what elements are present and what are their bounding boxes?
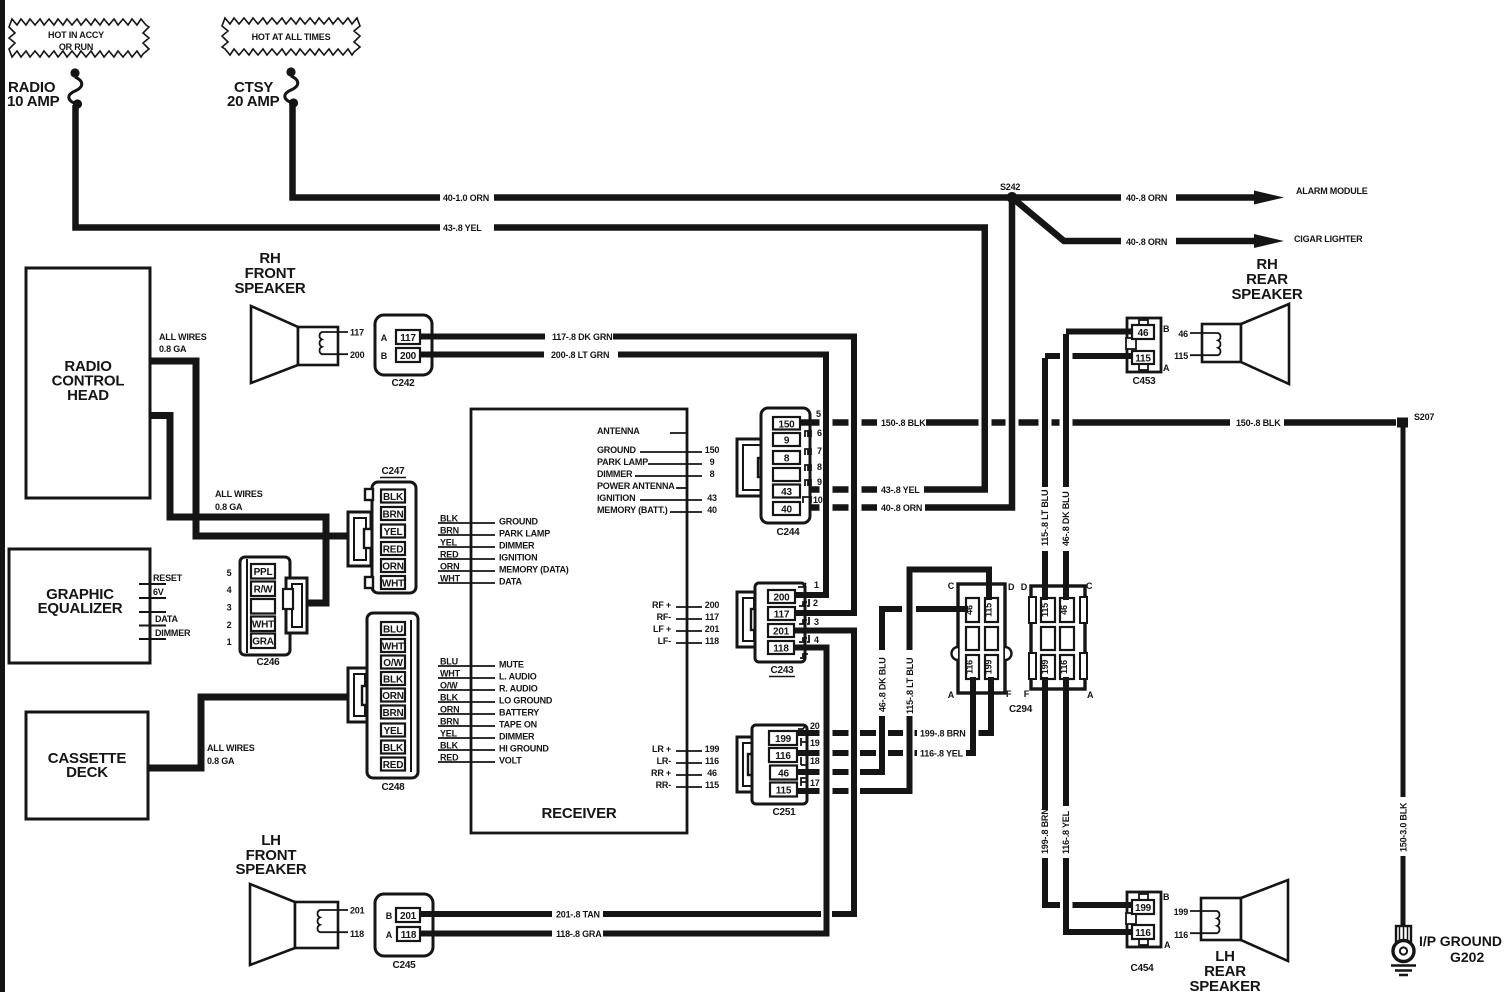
svg-text:10 AMP: 10 AMP [7,93,60,110]
svg-text:HOT AT ALL TIMES: HOT AT ALL TIMES [252,32,331,42]
svg-text:118: 118 [401,930,417,941]
wire stub into C454 pin A [1124,929,1133,935]
svg-text:O/W: O/W [440,681,458,691]
svg-text:199-.8 BRN: 199-.8 BRN [1040,808,1050,854]
svg-text:B: B [381,351,388,361]
svg-text:200: 200 [705,600,720,610]
svg-text:WHT: WHT [382,579,404,590]
wire radio control head to C246 [150,416,326,604]
svg-text:201: 201 [400,911,417,922]
svg-text:S242: S242 [1000,182,1020,192]
hot-in-accy callout box [9,19,149,57]
svg-text:115: 115 [776,786,792,797]
wire 43-.8 YEL from RADIO fuse [76,105,985,490]
svg-text:EQUALIZER: EQUALIZER [38,600,123,617]
svg-text:LF-: LF- [658,636,672,646]
C251 pin cavities and numbers [798,725,806,729]
connector C294 left half [958,584,1005,693]
svg-text:RR-: RR- [656,780,672,790]
svg-text:201: 201 [773,627,790,638]
svg-text:A: A [381,333,388,343]
svg-text:A: A [1164,940,1171,950]
svg-text:LR-: LR- [657,756,672,766]
connector C453 [1127,318,1161,372]
svg-text:OR RUN: OR RUN [59,42,93,52]
svg-text:I/P GROUND: I/P GROUND [1419,933,1502,949]
svg-text:LR +: LR + [652,744,671,754]
svg-text:B: B [1163,324,1170,334]
ring terminal I/P ground G202 [1396,926,1411,942]
svg-text:YEL: YEL [384,527,403,538]
svg-text:ANTENNA: ANTENNA [597,426,640,436]
svg-text:R. AUDIO: R. AUDIO [499,684,538,694]
svg-text:4: 4 [227,585,232,595]
svg-text:0.8 GA: 0.8 GA [159,344,187,354]
svg-text:46: 46 [1138,328,1149,339]
svg-text:RF-: RF- [657,612,672,622]
svg-text:115: 115 [984,603,994,617]
connector C251 left plug [737,737,755,792]
svg-text:115: 115 [705,780,719,790]
LH front speaker [250,884,295,965]
connector C247 [372,482,416,593]
svg-text:BRN: BRN [440,717,459,727]
wire 201-.8 TAN C243-3 to C245-B [421,631,854,915]
wire 117-.8 DK GRN C243-2 to C242-A [421,337,854,614]
receiver pin rows left group 1 (C247) [438,523,495,583]
svg-text:POWER ANTENNA: POWER ANTENNA [597,481,675,491]
svg-text:C247: C247 [381,466,405,477]
svg-text:9: 9 [710,457,715,467]
svg-text:115: 115 [1174,351,1188,361]
svg-text:201: 201 [705,624,720,634]
svg-text:150: 150 [778,420,795,431]
svg-text:D: D [1021,582,1028,592]
svg-text:20: 20 [810,721,820,731]
svg-text:DECK: DECK [66,764,108,781]
svg-text:199: 199 [775,734,792,745]
svg-text:40-1.0 ORN: 40-1.0 ORN [443,193,489,203]
svg-text:8: 8 [817,462,822,472]
svg-text:43-.8 YEL: 43-.8 YEL [443,223,482,233]
svg-text:D: D [1008,582,1015,592]
svg-text:199: 199 [1040,660,1050,675]
svg-text:LF +: LF + [653,624,671,634]
wire 115-.8 LT BLU C251-17 to C294 [796,570,989,792]
svg-text:C251: C251 [772,807,796,818]
svg-text:40-.8 ORN: 40-.8 ORN [881,503,922,513]
wire 118-.8 GRA C243-4 to C245-A [421,648,827,934]
svg-text:43: 43 [781,487,792,498]
C243 pin cavities and numbers [798,583,806,587]
svg-text:4: 4 [814,635,819,645]
svg-text:SPEAKER: SPEAKER [235,861,306,878]
svg-text:S207: S207 [1414,412,1434,422]
svg-text:O/W: O/W [383,658,403,669]
svg-text:200: 200 [773,593,790,604]
svg-text:3: 3 [814,617,819,627]
svg-text:G202: G202 [1450,949,1484,965]
svg-text:C454: C454 [1130,963,1154,974]
svg-text:RED: RED [383,545,404,556]
svg-text:PARK LAMP: PARK LAMP [499,529,550,539]
svg-text:2: 2 [227,620,232,630]
wire 40 ORN from CTSY fuse to S242 [293,104,1257,198]
svg-text:116: 116 [705,756,719,766]
svg-text:IGNITION: IGNITION [499,553,537,563]
svg-text:SPEAKER: SPEAKER [234,280,305,297]
svg-text:46-.8 DK BLU: 46-.8 DK BLU [1061,491,1071,546]
svg-text:CIGAR LIGHTER: CIGAR LIGHTER [1294,234,1363,244]
svg-text:2: 2 [813,598,818,608]
svg-text:R/W: R/W [254,585,274,596]
arrow to cigar lighter [1254,234,1284,248]
svg-text:19: 19 [810,738,820,748]
svg-text:BLK: BLK [440,693,459,703]
RH front speaker [251,306,298,383]
wire 40 ORN down from S242 to C244 pin 40 [800,200,1012,508]
svg-text:40-.8 ORN: 40-.8 ORN [1126,237,1167,247]
connector C248 [367,613,418,778]
svg-text:46-.8 DK BLU: 46-.8 DK BLU [878,657,888,712]
svg-text:43: 43 [707,493,717,503]
svg-text:DIMMER: DIMMER [499,541,535,551]
splice S207 [1397,418,1408,428]
svg-text:0.8 GA: 0.8 GA [215,502,243,512]
svg-text:200-.8 LT GRN: 200-.8 LT GRN [551,350,609,360]
wire radio control head to C247 [150,361,352,536]
svg-text:BLU: BLU [440,657,458,667]
svg-text:C242: C242 [391,378,415,389]
svg-text:C294: C294 [1009,704,1033,715]
svg-text:C: C [1086,581,1093,591]
wire stub out of C245 pin B [420,911,438,917]
svg-text:116: 116 [775,751,791,762]
svg-text:C244: C244 [776,527,800,538]
svg-text:116: 116 [1059,660,1069,674]
wire stub out of C245 pin A [419,931,438,937]
connector C247 left plug [348,512,371,566]
svg-text:B: B [1163,892,1170,902]
svg-text:WHT: WHT [440,574,461,584]
svg-text:6: 6 [817,428,822,438]
svg-text:20 AMP: 20 AMP [227,93,280,110]
svg-text:YEL: YEL [440,729,458,739]
svg-text:DIMMER: DIMMER [597,469,633,479]
svg-text:117: 117 [350,328,364,338]
svg-text:ALL WIRES: ALL WIRES [207,743,255,753]
RH rear speaker [1202,324,1241,362]
svg-text:YEL: YEL [440,538,458,548]
svg-text:40: 40 [781,505,792,516]
svg-text:199: 199 [984,660,994,675]
svg-text:9: 9 [817,477,822,487]
svg-text:150-.8 BLK: 150-.8 BLK [881,418,926,428]
svg-text:ORN: ORN [382,691,404,702]
connector C454 [1127,892,1161,947]
wire 116-.8 YEL C251-19 to C294 [796,681,973,753]
fuse CTSY 20 AMP [286,67,295,76]
svg-text:WHT: WHT [382,642,404,653]
svg-text:8: 8 [710,469,715,479]
wire 115-.8 LT BLU C453-A to C294 [1045,356,1133,600]
svg-text:RED: RED [383,760,404,771]
wire 46-.8 DK BLU C251-18 to C294 [796,609,964,772]
svg-text:200: 200 [350,350,365,360]
svg-text:RR +: RR + [651,768,671,778]
receiver pin rows left group 2 (C248) [438,666,495,762]
svg-text:TAPE ON: TAPE ON [499,720,537,730]
svg-text:BLK: BLK [383,743,404,754]
svg-text:43-.8 YEL: 43-.8 YEL [881,485,920,495]
connector C243 [755,583,805,662]
wire stubs into C294 cells [956,581,1066,694]
svg-text:VOLT: VOLT [499,756,522,766]
wire stub into C454 pin B [1124,902,1133,908]
svg-text:RECEIVER: RECEIVER [541,805,616,822]
svg-text:116: 116 [1135,928,1151,939]
svg-text:116-.8 YEL: 116-.8 YEL [1061,810,1071,854]
svg-text:46: 46 [707,768,717,778]
svg-text:F: F [1006,689,1012,699]
svg-text:LO GROUND: LO GROUND [499,696,553,706]
svg-text:17: 17 [810,778,820,788]
splice S242 [1007,192,1018,203]
svg-text:ORN: ORN [382,562,404,573]
C244 pin cavities and numbers [805,431,811,437]
svg-text:10: 10 [813,495,823,505]
svg-text:200: 200 [400,351,417,362]
svg-text:46: 46 [778,769,789,780]
svg-text:46: 46 [1059,605,1069,615]
svg-text:115: 115 [1135,354,1151,365]
svg-text:RF +: RF + [652,600,671,610]
svg-text:117-.8 DK GRN: 117-.8 DK GRN [552,332,612,342]
svg-text:118: 118 [773,644,789,655]
svg-text:C: C [948,581,955,591]
svg-text:118: 118 [705,636,719,646]
svg-text:B: B [386,911,393,921]
svg-text:WHT: WHT [440,669,461,679]
RECEIVER box [471,409,687,833]
svg-text:199: 199 [1174,907,1189,917]
svg-text:BRN: BRN [382,708,403,719]
svg-text:46: 46 [1178,329,1188,339]
CASSETTE DECK box [26,712,148,819]
connector C245 [375,894,433,956]
svg-text:6V: 6V [153,587,164,597]
wire 40-.8 ORN to cigar lighter [1012,198,1256,242]
LH rear speaker [1201,898,1241,940]
svg-text:A: A [386,930,393,940]
svg-text:C248: C248 [381,782,405,793]
svg-text:5: 5 [227,568,232,578]
svg-text:BATTERY: BATTERY [499,708,539,718]
hot-at-all-times callout box [222,18,360,55]
svg-text:BLK: BLK [440,741,459,751]
svg-text:115-.8 LT BLU: 115-.8 LT BLU [1040,490,1050,546]
svg-text:C453: C453 [1132,376,1156,387]
wire 200-.8 LT GRN C243-1 to C242-B [421,355,826,596]
svg-text:HEAD: HEAD [67,387,109,404]
svg-text:YEL: YEL [384,726,403,737]
svg-text:0.8 GA: 0.8 GA [207,756,235,766]
svg-text:C245: C245 [392,960,416,971]
svg-text:MUTE: MUTE [499,660,524,670]
connector C244 [761,408,810,523]
svg-text:ALARM MODULE: ALARM MODULE [1296,186,1368,196]
svg-text:150-.8 BLK: 150-.8 BLK [1236,418,1281,428]
svg-text:IGNITION: IGNITION [597,493,635,503]
svg-text:201-.8 TAN: 201-.8 TAN [556,910,600,920]
svg-text:8: 8 [784,454,790,465]
svg-text:GROUND: GROUND [499,517,538,527]
svg-text:150: 150 [705,445,720,455]
svg-text:116-.8 YEL: 116-.8 YEL [920,749,964,759]
svg-text:7: 7 [817,446,822,456]
svg-text:117: 117 [774,610,790,621]
svg-text:117: 117 [705,612,719,622]
RADIO CONTROL HEAD box [26,268,150,498]
svg-text:DATA: DATA [499,577,523,587]
svg-text:199-.8 BRN: 199-.8 BRN [920,729,966,739]
svg-text:116: 116 [1174,930,1188,940]
wire 116-.8 YEL C294 to C454-A [1066,678,1133,932]
equalizer pin stubs [139,584,166,639]
svg-text:199: 199 [1135,903,1152,914]
connector C294 right half [1031,586,1085,689]
svg-text:BLU: BLU [383,625,403,636]
svg-text:SPEAKER: SPEAKER [1189,978,1260,992]
ground symbol G202 [1391,966,1416,976]
wire stub out of C242 pin B [420,352,438,358]
svg-text:18: 18 [810,756,820,766]
svg-text:115-.8 LT BLU: 115-.8 LT BLU [905,658,915,714]
svg-text:HI GROUND: HI GROUND [499,744,549,754]
connector C243 left plug [737,592,757,647]
svg-text:3: 3 [227,603,232,613]
wire cassette deck to C248 [148,697,352,768]
svg-text:117: 117 [400,333,416,344]
svg-text:MEMORY (BATT.): MEMORY (BATT.) [597,505,668,515]
svg-text:40-.8 ORN: 40-.8 ORN [1126,193,1167,203]
svg-text:118-.8 GRA: 118-.8 GRA [556,929,602,939]
svg-text:L. AUDIO: L. AUDIO [499,672,537,682]
svg-text:199: 199 [705,744,720,754]
connector C248 left plug [348,668,370,722]
svg-text:A: A [1163,363,1170,373]
svg-text:SPEAKER: SPEAKER [1231,286,1302,303]
svg-text:RED: RED [440,753,459,763]
page left border bar [0,0,5,992]
svg-text:BRN: BRN [382,510,403,521]
svg-text:BLK: BLK [440,514,459,524]
svg-text:DATA: DATA [155,614,179,624]
svg-text:A: A [1087,690,1094,700]
svg-text:DIMMER: DIMMER [155,628,191,638]
svg-text:BLK: BLK [383,675,404,686]
wire 199-.8 BRN C251-20 to C294 [796,681,991,733]
svg-text:PARK LAMP: PARK LAMP [597,457,648,467]
svg-text:C243: C243 [770,665,794,676]
wire stub out of C242 pin A [420,334,438,340]
svg-text:9: 9 [784,436,790,447]
svg-text:PPL: PPL [254,567,273,578]
svg-text:150-3.0 BLK: 150-3.0 BLK [1399,802,1409,852]
svg-text:ALL WIRES: ALL WIRES [215,489,263,499]
svg-text:115: 115 [1040,603,1050,617]
arrow to alarm module [1254,191,1284,205]
svg-text:201: 201 [350,906,365,916]
wire 199-.8 BRN C294 to C454-B [1045,678,1133,905]
connector C242 [375,315,432,375]
connector C251 [752,725,807,804]
svg-text:116: 116 [965,660,975,674]
svg-text:WHT: WHT [252,620,274,631]
fuse RADIO 10 AMP [70,68,79,77]
wire 46-.8 DK BLU C453-B to C294 [1066,332,1133,601]
connector C244 left plug [737,439,768,496]
svg-text:HOT IN ACCY: HOT IN ACCY [48,30,104,40]
wire 150-.8 BLK from C244 to S207 [800,419,1396,426]
svg-text:A: A [948,690,955,700]
svg-text:40: 40 [707,505,717,515]
svg-text:C246: C246 [256,657,280,668]
svg-text:GRA: GRA [252,637,274,648]
svg-text:BLK: BLK [383,492,404,503]
svg-text:1: 1 [814,580,819,590]
svg-text:DIMMER: DIMMER [499,732,535,742]
svg-text:5: 5 [816,409,821,419]
svg-text:MEMORY (DATA): MEMORY (DATA) [499,565,569,575]
svg-text:GROUND: GROUND [597,445,636,455]
connector C246 [240,557,290,655]
svg-text:ORN: ORN [440,562,459,572]
svg-text:1: 1 [227,637,232,647]
svg-text:BRN: BRN [440,526,459,536]
svg-text:118: 118 [350,929,364,939]
svg-text:ORN: ORN [440,705,459,715]
svg-text:RED: RED [440,550,459,560]
wire 150-3.0 BLK S207 to G202 [1401,427,1406,926]
svg-text:RESET: RESET [153,573,183,583]
svg-text:F: F [1024,689,1030,699]
wire stub into C453 pin A [1124,353,1133,359]
svg-text:ALL WIRES: ALL WIRES [159,332,207,342]
wire stub into C453 pin B [1124,329,1133,335]
GRAPHIC EQUALIZER box [9,549,150,663]
